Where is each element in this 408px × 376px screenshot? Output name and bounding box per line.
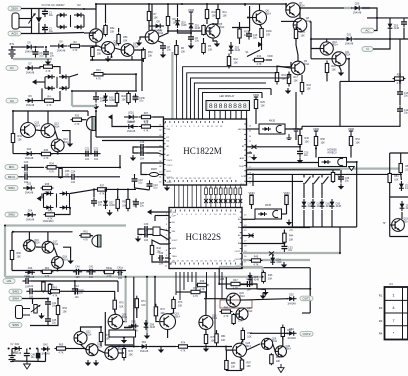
svg-text:VDD: VDD	[313, 127, 320, 131]
wire to D20	[300, 7, 352, 9]
wire	[247, 128, 260, 130]
svg-text:10u: 10u	[304, 154, 309, 157]
wire	[134, 48, 143, 51]
wire	[93, 189, 95, 197]
svg-text:HS0038: HS0038	[327, 149, 337, 152]
wire	[81, 290, 106, 292]
wire plug pin 2	[19, 26, 32, 28]
wire	[66, 348, 74, 350]
svg-text:10K: 10K	[18, 139, 23, 142]
wire	[296, 45, 298, 61]
wire	[190, 346, 232, 348]
svg-text:9014: 9014	[35, 124, 41, 127]
svg-text:R42: R42	[157, 247, 162, 250]
svg-text:DO: DO	[241, 176, 245, 178]
wire Q5 emitter	[213, 38, 217, 41]
svg-text:C42: C42	[29, 285, 34, 288]
svg-text:104: 104	[118, 277, 123, 280]
svg-text:R63: R63	[53, 286, 58, 289]
svg-text:10u: 10u	[79, 292, 84, 295]
wire	[276, 71, 278, 73]
svg-text:1N4148: 1N4148	[26, 218, 35, 221]
wire	[295, 39, 297, 45]
wire	[41, 194, 43, 199]
svg-text:10K: 10K	[294, 80, 299, 83]
wire amp bottom rail	[13, 153, 100, 155]
wire B2 bottom	[390, 236, 408, 238]
svg-text:R37: R37	[100, 184, 105, 187]
wire	[303, 174, 305, 177]
wire	[135, 184, 150, 190]
svg-text:R64: R64	[63, 307, 68, 310]
ground	[144, 333, 150, 339]
power rail VDD	[283, 191, 290, 198]
wire highlighted drop 1	[124, 277, 126, 322]
svg-text:VDD: VDD	[248, 191, 255, 195]
connector SW2	[5, 212, 18, 217]
wire enclosure bottom edge	[242, 226, 357, 228]
wire	[124, 318, 126, 322]
svg-text:R81: R81	[221, 335, 226, 338]
wire	[138, 229, 142, 235]
wire K1 row	[96, 136, 164, 138]
wire	[34, 67, 42, 68]
svg-text:10K: 10K	[305, 141, 310, 144]
wire	[239, 39, 241, 45]
svg-text:10K: 10K	[181, 51, 186, 54]
wire	[332, 170, 334, 172]
wire	[389, 31, 391, 39]
svg-text:R76: R76	[129, 350, 134, 353]
jack J1	[109, 330, 136, 337]
svg-text:10u: 10u	[52, 305, 57, 308]
wire	[403, 17, 405, 20]
svg-text:104: 104	[71, 181, 76, 184]
ground	[45, 59, 51, 65]
svg-text:10K: 10K	[301, 35, 306, 38]
svg-text:4148: 4148	[336, 205, 342, 208]
svg-text:MIC2: MIC2	[8, 175, 15, 179]
svg-text:1N4148: 1N4148	[26, 72, 35, 75]
signal triangle	[349, 167, 355, 171]
svg-text:R48: R48	[200, 280, 205, 283]
wire	[160, 235, 169, 241]
ground	[67, 258, 73, 264]
svg-text:VDD: VDD	[188, 8, 195, 12]
wire	[146, 146, 164, 148]
svg-text:ACN: ACN	[11, 32, 17, 36]
wire	[247, 344, 261, 350]
svg-text:4.7K: 4.7K	[44, 157, 49, 160]
wire to IR receiver	[247, 162, 319, 164]
wire	[350, 146, 352, 158]
svg-text:TP: TP	[382, 222, 385, 225]
svg-text:R70: R70	[119, 302, 124, 305]
svg-text:D1 1N4007: D1 1N4007	[51, 3, 65, 7]
svg-text:R63a: R63a	[106, 267, 112, 270]
svg-text:OUT2: OUT2	[235, 259, 242, 261]
wire	[11, 349, 13, 356]
wire to Q5 base	[168, 30, 206, 32]
wire OSC2	[161, 170, 164, 175]
svg-text:104: 104	[76, 276, 81, 279]
pin ticks	[244, 124, 246, 181]
svg-text:10u: 10u	[288, 249, 293, 252]
svg-text:10K: 10K	[289, 238, 294, 241]
wire	[295, 134, 297, 140]
svg-text:10K: 10K	[276, 360, 281, 363]
wire	[283, 230, 285, 234]
power rail VDD	[188, 8, 195, 15]
svg-text:LDP: LDP	[172, 216, 177, 218]
wire	[250, 332, 288, 334]
svg-text:10K: 10K	[110, 31, 115, 34]
wire	[242, 218, 255, 220]
svg-text:R13b: R13b	[266, 30, 272, 33]
svg-text:R71: R71	[141, 300, 146, 303]
wire Q6 collector	[259, 4, 261, 11]
svg-text:R16: R16	[282, 74, 287, 77]
wire	[152, 211, 170, 213]
ground	[67, 141, 73, 147]
capacitor C47 (electrolytic, filled)	[36, 353, 41, 359]
svg-text:D42: D42	[43, 344, 48, 347]
wire	[44, 8, 46, 11]
wire	[374, 18, 377, 31]
ground	[203, 346, 209, 352]
svg-text:R17: R17	[294, 76, 299, 79]
wire highlighted row 1	[242, 252, 340, 254]
svg-text:10K: 10K	[123, 40, 128, 43]
svg-text:C17: C17	[140, 147, 145, 150]
svg-text:10K: 10K	[223, 15, 228, 18]
svg-text:4N35: 4N35	[269, 120, 276, 123]
crystal Y1	[147, 173, 161, 177]
svg-text:1N4148: 1N4148	[25, 157, 34, 160]
wire	[45, 352, 47, 362]
svg-text:R60: R60	[17, 252, 22, 255]
wire	[38, 23, 40, 34]
wire highlighted long net	[247, 168, 403, 170]
wire highlighted net A	[5, 224, 126, 226]
wire	[95, 92, 97, 94]
svg-text:R44: R44	[289, 235, 294, 238]
svg-text:10K: 10K	[268, 278, 273, 281]
svg-text:10K: 10K	[208, 31, 213, 34]
svg-text:10K: 10K	[212, 15, 217, 18]
ground near Q4	[136, 40, 142, 46]
svg-text:MIC: MIC	[9, 165, 15, 169]
svg-text:10K: 10K	[231, 366, 236, 369]
wire	[117, 281, 119, 292]
wire	[321, 184, 323, 199]
wire R8 to Q4	[159, 26, 168, 37]
wire	[340, 114, 400, 126]
earth ground	[287, 134, 292, 140]
svg-text:4.7K: 4.7K	[193, 295, 198, 298]
svg-text:LED2: LED2	[128, 121, 135, 124]
svg-text:C41: C41	[89, 266, 94, 269]
wire to Q7	[245, 4, 286, 10]
ground	[135, 236, 141, 242]
wire	[57, 152, 59, 154]
svg-text:1N4148: 1N4148	[57, 50, 66, 53]
wire Q11 base	[311, 58, 332, 60]
wire Q10 collector	[326, 39, 328, 42]
wire	[204, 298, 226, 300]
svg-text:104: 104	[94, 158, 99, 161]
svg-text:C24: C24	[71, 171, 76, 174]
svg-text:D22: D22	[27, 148, 32, 151]
wire	[131, 56, 133, 60]
svg-text:10K: 10K	[356, 142, 361, 145]
wire	[299, 145, 301, 149]
ground	[286, 220, 292, 226]
svg-text:R31: R31	[18, 135, 23, 138]
svg-text:C43: C43	[74, 285, 79, 288]
wire	[303, 184, 305, 199]
ground	[251, 155, 257, 161]
wire	[255, 110, 257, 124]
wire	[190, 31, 192, 34]
svg-text:OSC2: OSC2	[167, 165, 174, 167]
wire	[95, 111, 97, 137]
wire	[201, 292, 206, 315]
svg-text:10u: 10u	[404, 95, 408, 98]
svg-text:10K: 10K	[247, 336, 252, 339]
ground	[121, 333, 127, 339]
connector MIC input	[5, 165, 18, 170]
svg-text:104: 104	[144, 239, 149, 242]
wire highlighted row 2	[242, 259, 310, 261]
wire bridge top rail	[44, 8, 84, 11]
wire	[315, 134, 317, 137]
svg-text:6V: 6V	[11, 343, 14, 346]
svg-text:1N4148: 1N4148	[287, 302, 296, 305]
svg-text:LED1: LED1	[128, 112, 135, 115]
svg-text:VDD: VDD	[253, 93, 260, 97]
svg-text:VDD: VDD	[283, 191, 290, 195]
svg-text:4.7K: 4.7K	[144, 130, 149, 133]
wire	[218, 268, 220, 284]
svg-text:R4: R4	[379, 332, 383, 336]
speaker	[92, 235, 101, 247]
svg-text:R5a: R5a	[110, 27, 115, 30]
wire Q6 base	[250, 17, 252, 19]
svg-text:-AMP: -AMP	[239, 157, 245, 160]
wire emitter rail	[90, 59, 143, 61]
svg-text:4.7K: 4.7K	[181, 350, 186, 353]
wire	[175, 40, 177, 44]
svg-text:OUT1: OUT1	[235, 251, 242, 253]
svg-text:FU 0.5A: FU 0.5A	[42, 4, 51, 7]
wire highlighted net vertical	[4, 226, 6, 277]
svg-text:10u: 10u	[404, 112, 408, 115]
wire	[167, 330, 169, 339]
wire	[261, 93, 263, 99]
wire	[300, 129, 302, 135]
wire	[312, 210, 314, 227]
optocoupler U3	[259, 124, 285, 134]
wire long net	[247, 173, 403, 175]
svg-text:R12: R12	[234, 58, 239, 61]
svg-text:R65: R65	[59, 344, 64, 347]
svg-text:C16: C16	[140, 141, 145, 144]
switch	[303, 177, 310, 185]
svg-text:10K: 10K	[129, 354, 134, 357]
IR receiver U5	[319, 158, 347, 167]
wire K2 row	[102, 140, 164, 142]
wire	[273, 344, 276, 352]
trimmer RP1	[34, 305, 37, 314]
svg-text:R22: R22	[122, 95, 127, 98]
wire	[57, 268, 59, 270]
wire	[301, 75, 303, 81]
svg-text:4.7K: 4.7K	[44, 275, 49, 278]
svg-text:VOUT: VOUT	[167, 177, 174, 179]
ground (open)	[278, 364, 284, 373]
diode D12 (inline X)	[249, 234, 254, 238]
wire	[169, 309, 174, 314]
wire	[206, 4, 208, 9]
wire	[31, 9, 33, 34]
wire	[28, 232, 30, 240]
wire	[50, 45, 56, 47]
ground	[158, 347, 164, 353]
wire	[11, 57, 13, 59]
svg-text:R28: R28	[144, 122, 149, 125]
wire long net 2	[247, 169, 341, 171]
wire	[105, 291, 115, 299]
ground	[164, 185, 170, 191]
wire drop	[252, 174, 254, 186]
svg-text:VDD: VDD	[267, 54, 273, 58]
svg-text:10K: 10K	[106, 338, 111, 341]
svg-text:R85: R85	[238, 316, 243, 319]
svg-text:R14: R14	[257, 55, 262, 58]
svg-text:C32: C32	[159, 252, 164, 255]
wire	[91, 58, 93, 60]
wire	[38, 9, 40, 18]
svg-text:10u: 10u	[49, 30, 54, 33]
svg-text:R72: R72	[160, 308, 165, 311]
wire	[149, 346, 176, 348]
wire	[310, 22, 311, 59]
wire Q8 collector up	[299, 8, 301, 18]
wire highlighted drop 2	[146, 277, 148, 333]
svg-text:OUT2: OUT2	[302, 332, 310, 336]
svg-text:10u: 10u	[39, 55, 44, 58]
svg-text:D23: D23	[27, 183, 32, 186]
wire	[165, 257, 169, 259]
svg-text:10u: 10u	[195, 40, 200, 43]
wire long row to right	[242, 267, 310, 269]
svg-text:D2: D2	[77, 3, 81, 7]
svg-text:+5V: +5V	[289, 229, 294, 232]
svg-text:R47: R47	[233, 279, 238, 282]
svg-text:R5d: R5d	[148, 51, 153, 54]
wire B2 mid rail	[390, 196, 408, 198]
resistor (vertical)	[48, 283, 51, 295]
svg-text:10u: 10u	[138, 182, 143, 185]
svg-text:R45: R45	[254, 256, 259, 259]
wire	[286, 205, 288, 215]
ground	[121, 338, 127, 344]
wire	[148, 21, 150, 30]
wire	[400, 174, 403, 180]
wire	[44, 33, 46, 34]
svg-text:BT1: BT1	[10, 42, 15, 46]
svg-text:1N4148x4: 1N4148x4	[43, 220, 55, 223]
wire highlighted	[219, 266, 263, 268]
wire V+ rail to top bus	[84, 4, 245, 9]
svg-text:10K: 10K	[332, 69, 337, 72]
connector MIC2	[5, 175, 18, 180]
power rail VDD	[248, 191, 255, 198]
wire	[399, 97, 401, 105]
svg-text:88888888: 88888888	[209, 103, 247, 111]
wire enclosure bottom	[302, 125, 340, 127]
wire top	[21, 8, 44, 10]
wire cluster rail	[72, 90, 137, 92]
wire	[283, 242, 285, 244]
wire	[63, 247, 71, 258]
wire	[141, 60, 143, 91]
connector LIN	[3, 279, 15, 284]
wire	[11, 47, 13, 50]
wire	[160, 229, 169, 231]
switch	[312, 177, 319, 185]
resistor (vertical)	[285, 195, 288, 206]
svg-text:R19: R19	[96, 69, 101, 72]
wire	[37, 81, 45, 83]
crystal Y2 box	[153, 227, 160, 236]
ground	[105, 56, 111, 62]
svg-text:10K: 10K	[234, 62, 239, 65]
wire	[70, 189, 95, 193]
wire	[104, 73, 136, 75]
wire	[340, 80, 395, 82]
wire Q10 base	[311, 39, 320, 49]
svg-text:4.7K: 4.7K	[96, 77, 101, 80]
pin ticks	[164, 123, 166, 180]
wire	[90, 131, 92, 154]
keypad matrix table	[385, 287, 408, 340]
ground	[130, 155, 136, 161]
svg-text:220V: 220V	[11, 7, 18, 11]
ground (open)	[24, 362, 31, 370]
svg-text:4.7K: 4.7K	[224, 315, 229, 318]
svg-text:1N4148: 1N4148	[13, 352, 22, 355]
svg-text:GND: GND	[167, 182, 172, 184]
wire B2 left	[389, 153, 391, 237]
switch	[321, 177, 328, 185]
wire	[47, 111, 49, 124]
svg-text:OUT1: OUT1	[302, 297, 310, 301]
svg-text:4.7K: 4.7K	[49, 171, 54, 174]
wire feeds from IC2 bottom	[176, 272, 222, 334]
svg-text:TRIG: TRIG	[172, 256, 178, 258]
battery BT1	[9, 356, 16, 362]
wire	[112, 117, 127, 127]
wire	[148, 4, 150, 11]
wire Q4 base	[140, 37, 145, 40]
wire	[119, 155, 121, 167]
svg-text:SW5: SW5	[12, 323, 19, 327]
svg-text:10u: 10u	[31, 356, 36, 359]
wire	[108, 188, 136, 190]
svg-text:R40: R40	[48, 210, 53, 213]
